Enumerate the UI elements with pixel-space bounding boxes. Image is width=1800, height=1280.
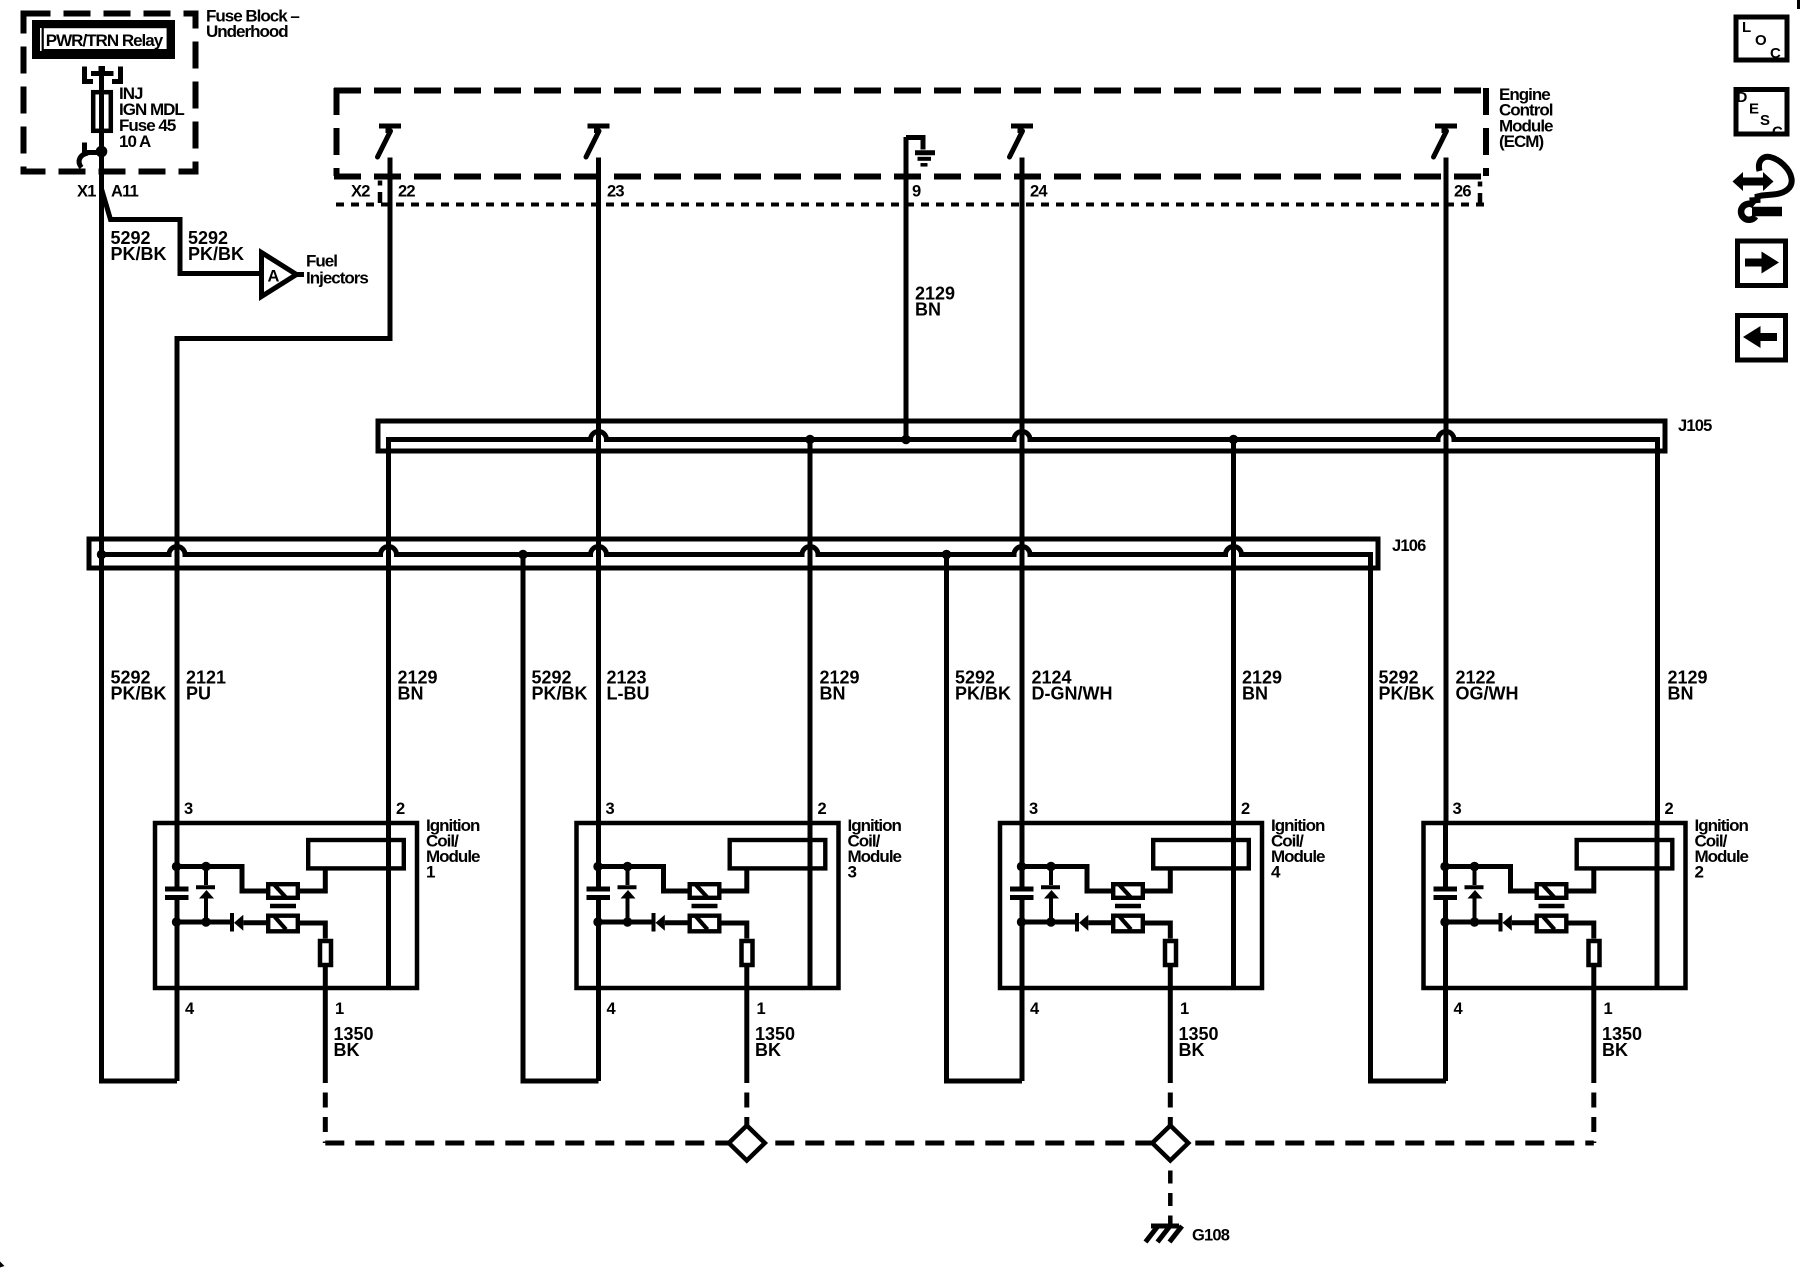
label 2129 BN	[1242, 668, 1282, 704]
coil 1 resistor	[320, 941, 331, 965]
coil 1 zener diode	[196, 867, 215, 923]
coil 2 secondary coil winding box	[1577, 840, 1673, 868]
svg-text:D-GN/WH: D-GN/WH	[1032, 684, 1113, 704]
label 5292 PK/BK	[955, 668, 1011, 704]
ground G108	[1146, 1226, 1230, 1245]
svg-text:PK/BK: PK/BK	[111, 244, 167, 264]
wire 2129 BN from ECM pin 9 to splice pack J105	[904, 137, 909, 437]
svg-text:OG/WH: OG/WH	[1456, 684, 1519, 704]
svg-text:2: 2	[818, 800, 827, 818]
ignition coil/module 2 box	[1424, 816, 1749, 988]
coil 2 zener diode	[1465, 867, 1484, 923]
svg-text:22: 22	[398, 183, 415, 201]
connector X2 label and separator	[351, 181, 380, 204]
coil 1 coupling bar	[270, 904, 296, 908]
coil 4 wire driver 2 to resistor	[1145, 923, 1170, 939]
ECM connector strip dotted edge	[336, 203, 1486, 207]
coil 2 internal primary line (pin 3 to pin 4)	[1443, 821, 1448, 1081]
svg-text:X2: X2	[351, 183, 370, 201]
wire 5292 PK/BK branch to fuel injectors	[102, 189, 262, 274]
coil 3 resistor	[742, 941, 753, 965]
splice (diamond) left	[729, 1126, 765, 1161]
svg-text:Underhood: Underhood	[206, 22, 288, 41]
ECM box "Engine Control Module (ECM)"	[334, 85, 1553, 177]
svg-text:BK: BK	[1179, 1040, 1205, 1060]
coil 4 secondary coil winding box	[1153, 840, 1249, 868]
svg-text:4: 4	[1030, 1000, 1040, 1018]
splice pack J105	[378, 417, 1712, 821]
svg-text:PK/BK: PK/BK	[188, 244, 244, 264]
svg-text:1: 1	[426, 863, 435, 882]
wire 5292 PK/BK from J106 to coil 3 pin 4	[523, 555, 599, 1082]
wire 2123 L-BU from ECM pin 23 to coil 3 pin 3	[596, 158, 601, 822]
coil 1 driver 1 (box with slash)	[268, 884, 298, 898]
svg-text:J106: J106	[1392, 537, 1426, 555]
svg-text:1: 1	[1604, 1000, 1613, 1018]
splice pack J106	[89, 537, 1446, 1081]
coil 4 diode	[1022, 913, 1111, 932]
svg-text:BN: BN	[915, 300, 941, 320]
label 2121 PU	[186, 668, 226, 704]
separator right of pin 26	[1478, 182, 1483, 205]
scan artifact top right corner	[1797, 0, 1800, 9]
splice (diamond) right	[1152, 1126, 1188, 1161]
coil 4 zener diode	[1041, 867, 1060, 923]
svg-text:9: 9	[912, 183, 921, 201]
ECM pin 22	[378, 126, 416, 201]
svg-text:PK/BK: PK/BK	[532, 684, 588, 704]
svg-text:PU: PU	[186, 684, 211, 704]
coil 3 wire driver 1 to secondary coil	[722, 871, 747, 892]
label 5292 PK/BK	[1379, 668, 1435, 704]
svg-text:3: 3	[1029, 800, 1038, 818]
ECM pin 24	[1010, 126, 1049, 201]
svg-text:Injectors: Injectors	[306, 269, 368, 288]
svg-text:1: 1	[335, 1000, 344, 1018]
coil 2 resistor	[1589, 941, 1600, 965]
coil 1 junction dots	[172, 862, 211, 927]
svg-text:3: 3	[1453, 800, 1462, 818]
coil 2 pin 2 internal wire	[1655, 821, 1660, 990]
coil 2 diode	[1446, 913, 1535, 932]
label 5292 PK/BK (injector branch)	[188, 228, 244, 264]
coil 3 pin 2 internal wire	[808, 821, 813, 990]
svg-text:BK: BK	[1602, 1040, 1628, 1060]
coil 2 capacitor	[1434, 889, 1458, 898]
svg-text:C: C	[1772, 124, 1783, 141]
svg-text:(ECM): (ECM)	[1499, 132, 1543, 151]
svg-text:1: 1	[757, 1000, 766, 1018]
svg-text:1: 1	[1180, 1000, 1189, 1018]
wire 2121 PU from ECM pin 22 to coil 1 pin 3	[177, 158, 390, 822]
coil 3 coupling bar	[692, 904, 718, 908]
wire 2129 BN from J105 to coil 4 pin 2	[1231, 440, 1236, 822]
coil 2 pin 1 wire 1350 BK	[1591, 965, 1596, 1143]
label 2129 BN	[398, 668, 438, 704]
svg-text:PWR/TRN Relay: PWR/TRN Relay	[46, 31, 164, 50]
svg-text:10 A: 10 A	[119, 132, 151, 151]
coil 2 wire driver 1 to secondary coil	[1569, 871, 1594, 892]
wire to ground G108	[1168, 1161, 1173, 1225]
svg-text:D: D	[1737, 89, 1748, 106]
label 5292 PK/BK	[532, 668, 588, 704]
svg-text:C: C	[1770, 45, 1781, 62]
ECM pin 26	[1434, 126, 1472, 201]
coil 4 resistor	[1165, 941, 1176, 965]
svg-text:A11: A11	[111, 183, 139, 201]
coil 1 diode	[177, 913, 266, 932]
label 2129 BN	[820, 668, 860, 704]
coil 1 driver 2 (box with slash)	[268, 916, 298, 932]
coil 1 wire driver 1 to secondary coil	[300, 871, 325, 892]
coil 3 internal wire to driver 1	[599, 867, 688, 892]
coil 1 wire driver 2 to resistor	[300, 923, 325, 939]
coil 4 internal wire to driver 1	[1022, 867, 1111, 892]
wire 2129 BN from J105 to coil 3 pin 2	[808, 440, 813, 822]
fuse block box "Fuse Block - Underhood"	[24, 7, 300, 172]
coil 3 wire driver 2 to resistor	[722, 923, 747, 939]
coil 3 diode	[599, 913, 688, 932]
svg-text:3: 3	[184, 800, 193, 818]
coil 2 driver 1 (box with slash)	[1537, 884, 1567, 898]
svg-text:4: 4	[185, 1000, 195, 1018]
icon LOC	[1736, 17, 1787, 62]
ECM pin 23	[586, 126, 624, 201]
coil 3 zener diode	[618, 867, 637, 923]
svg-text:G108: G108	[1192, 1227, 1230, 1245]
icon next (right arrow)	[1738, 241, 1786, 286]
svg-text:BN: BN	[820, 684, 846, 704]
scan artifact bottom left corner	[0, 1262, 5, 1268]
svg-text:3: 3	[848, 863, 857, 882]
ECM pin 9 (internal ground)	[906, 138, 935, 201]
svg-text:BK: BK	[755, 1040, 781, 1060]
coil 1 pin 2 internal wire	[386, 821, 391, 990]
coil 1 secondary coil winding box	[308, 840, 404, 868]
svg-text:BN: BN	[398, 684, 424, 704]
coil 2 driver 2 (box with slash)	[1537, 916, 1567, 932]
wire 5292 PK/BK from fuse through J106 down to coil 1 pin 4	[102, 75, 178, 1081]
svg-text:E: E	[1749, 101, 1759, 118]
ignition coil/module 3 box	[577, 816, 902, 988]
label 2129 BN	[1668, 668, 1708, 704]
label 1350 BK (coil 4)	[1179, 1024, 1219, 1060]
coil 3 capacitor	[587, 889, 611, 898]
icon DESC	[1736, 89, 1787, 141]
coil 4 internal primary line (pin 3 to pin 4)	[1020, 821, 1025, 1081]
svg-text:24: 24	[1030, 183, 1048, 201]
wire 2122 OG/WH from ECM pin 26 to coil 2 pin 3	[1444, 158, 1449, 822]
coil 2 coupling bar	[1539, 904, 1565, 908]
relay output terminal (socket brackets and pin)	[85, 66, 121, 82]
coil 4 pin 1 wire 1350 BK	[1168, 965, 1173, 1126]
svg-text:O: O	[1755, 32, 1767, 49]
ground wire 1350 BK dashed bus	[325, 1141, 1594, 1146]
coil 4 driver 2 (box with slash)	[1113, 916, 1143, 932]
label 5292 PK/BK (left vertical)	[111, 228, 167, 264]
svg-text:BK: BK	[334, 1040, 360, 1060]
coil 4 coupling bar	[1115, 904, 1141, 908]
coil 3 secondary coil winding box	[730, 840, 826, 868]
svg-text:L: L	[1742, 19, 1751, 36]
icon navigate (arrows and wrench)	[1733, 157, 1792, 220]
connector X1 terminal A11 (hook symbol and junction dot)	[77, 143, 139, 201]
label 1350 BK (coil 1)	[334, 1024, 374, 1060]
coil 4 capacitor	[1010, 889, 1034, 898]
coil 2 junction dots	[1440, 862, 1479, 927]
svg-text:X1: X1	[77, 183, 96, 201]
fuel injectors symbol A	[262, 252, 369, 297]
coil 2 wire driver 2 to resistor	[1569, 923, 1594, 939]
svg-text:L-BU: L-BU	[607, 684, 650, 704]
svg-text:4: 4	[607, 1000, 617, 1018]
svg-text:26: 26	[1454, 183, 1471, 201]
ignition coil/module 4 box	[1000, 816, 1325, 988]
fuse F45 "INJ IGN MDL Fuse 45 10 A"	[93, 84, 184, 151]
svg-text:2: 2	[1695, 863, 1704, 882]
svg-text:23: 23	[607, 183, 624, 201]
svg-text:PK/BK: PK/BK	[1379, 684, 1435, 704]
coil 3 junction dots	[593, 862, 632, 927]
coil 4 wire driver 1 to secondary coil	[1145, 871, 1170, 892]
label 1350 BK (coil 2)	[1602, 1024, 1642, 1060]
label 5292 PK/BK	[111, 668, 167, 704]
svg-text:2: 2	[1665, 800, 1674, 818]
label 2129 BN (pin 9 wire)	[915, 284, 955, 320]
ignition coil/module 1 box	[155, 816, 480, 988]
wire 2124 D-GN/WH from ECM pin 24 to coil 4 pin 3	[1020, 158, 1025, 822]
coil 3 pin 1 wire 1350 BK	[744, 965, 749, 1126]
label 1350 BK (coil 3)	[755, 1024, 795, 1060]
coil 1 pin 1 wire 1350 BK	[323, 965, 328, 1143]
svg-text:2: 2	[396, 800, 405, 818]
wire 5292 PK/BK from J106 to coil 4 pin 4	[947, 555, 1023, 1082]
svg-text:3: 3	[606, 800, 615, 818]
svg-text:S: S	[1760, 112, 1770, 129]
svg-text:2: 2	[1241, 800, 1250, 818]
label 2124 D-GN/WH	[1032, 668, 1113, 704]
coil 4 junction dots	[1017, 862, 1056, 927]
coil 4 pin 2 internal wire	[1231, 821, 1236, 990]
coil 3 internal primary line (pin 3 to pin 4)	[596, 821, 601, 1081]
coil 4 driver 1 (box with slash)	[1113, 884, 1143, 898]
coil 3 driver 2 (box with slash)	[690, 916, 720, 932]
svg-text:A: A	[267, 268, 279, 286]
coil 2 internal wire to driver 1	[1446, 867, 1535, 892]
label 2123 L-BU	[607, 668, 650, 704]
coil 3 driver 1 (box with slash)	[690, 884, 720, 898]
svg-text:BN: BN	[1242, 684, 1268, 704]
svg-text:PK/BK: PK/BK	[111, 684, 167, 704]
label 2122 OG/WH	[1456, 668, 1519, 704]
relay PWR/TRN Relay	[36, 24, 171, 55]
coil 1 internal wire to driver 1	[177, 867, 266, 892]
icon back (left arrow)	[1738, 316, 1786, 361]
svg-text:J105: J105	[1678, 417, 1712, 435]
coil 1 capacitor	[165, 889, 189, 898]
svg-text:BN: BN	[1668, 684, 1694, 704]
svg-text:4: 4	[1454, 1000, 1464, 1018]
svg-text:PK/BK: PK/BK	[955, 684, 1011, 704]
coil 1 internal primary line (pin 3 to pin 4)	[175, 821, 180, 1081]
